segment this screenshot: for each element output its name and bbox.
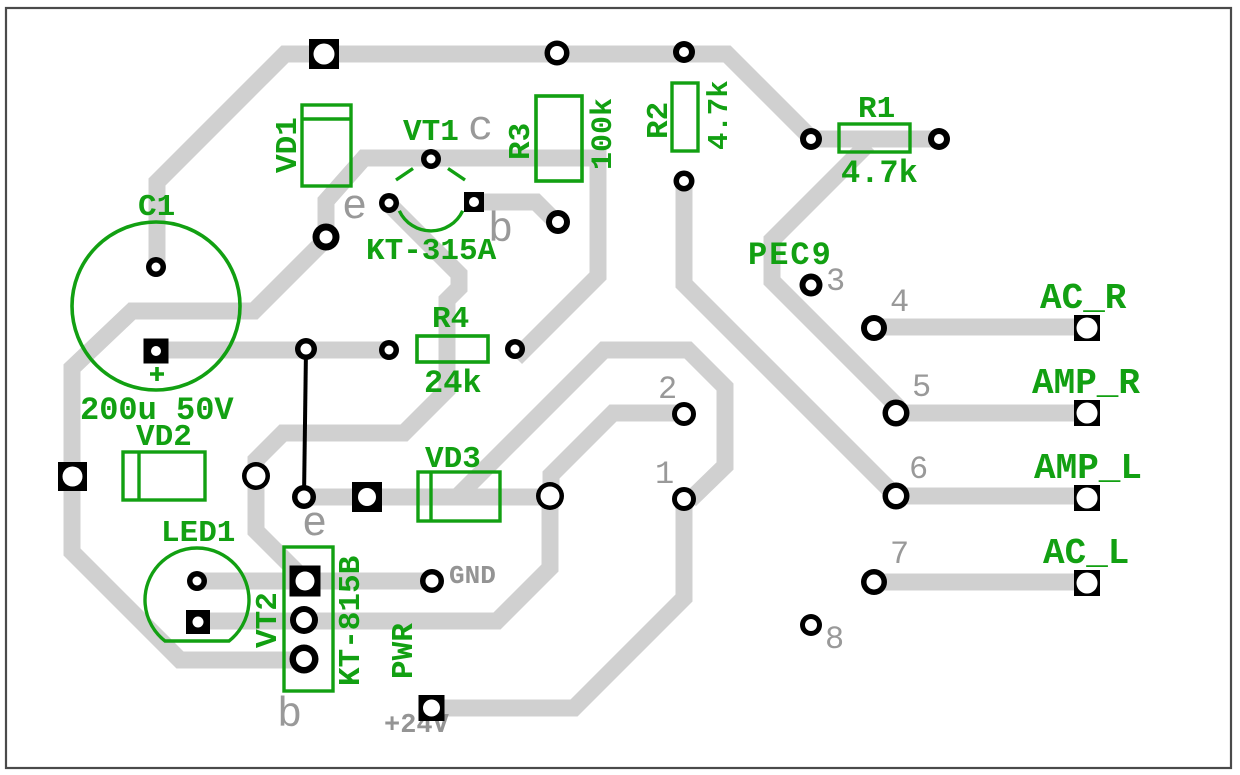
svg-text:AC_R: AC_R	[1040, 278, 1127, 319]
svg-text:1: 1	[655, 456, 674, 493]
pad right of VD3	[536, 482, 564, 510]
pad jumper top	[295, 338, 317, 360]
pad AC_L square	[1074, 570, 1100, 596]
pad VT1 emitter	[379, 193, 399, 213]
wire left net: VT2 pin3 left, up through left square pad to pad below VD1	[72, 240, 325, 660]
pad R2 bottom	[674, 171, 695, 192]
pad +24V square	[419, 695, 445, 721]
pad R2 top	[673, 41, 695, 63]
pad VT2 pin3	[290, 645, 319, 674]
pad pin 7	[861, 569, 887, 595]
wire emitter horizontal under VD3	[304, 489, 551, 506]
pad VT2 pin2	[290, 606, 318, 634]
svg-text:C1: C1	[138, 190, 175, 225]
svg-text:4: 4	[890, 284, 909, 321]
pad AC_R square	[1074, 315, 1100, 341]
resistor R2 outline	[672, 83, 698, 151]
svg-text:c: c	[468, 104, 493, 152]
wire pin 2 to pad right of VD3	[551, 413, 684, 488]
svg-text:VT2: VT2	[251, 592, 286, 648]
pad pin 6	[883, 483, 910, 510]
wire R2 bottom pad to pin 6 and AMP_L pad	[684, 181, 1087, 496]
svg-text:VD3: VD3	[425, 442, 481, 477]
svg-text:AMP_L: AMP_L	[1034, 448, 1142, 489]
resistor R4 outline	[417, 336, 488, 362]
wire LED1 bottom pin through VT2 pad2 right and up to pad right of VD3	[198, 500, 550, 621]
pad square left of VD3	[352, 482, 382, 512]
wire pin 7 to AC_L pad	[874, 574, 1087, 591]
svg-text:8: 8	[825, 621, 844, 658]
svg-text:e: e	[342, 183, 367, 231]
pad pin 4	[861, 315, 887, 341]
wire black jumper between pads	[304, 349, 306, 497]
pad LED1 bottom square	[186, 610, 210, 634]
svg-text:6: 6	[909, 451, 928, 488]
svg-text:3: 3	[826, 263, 845, 300]
diode VD3 outline	[418, 472, 500, 521]
svg-text:b: b	[277, 691, 302, 739]
wire under R1 from pad to pad	[811, 131, 939, 148]
svg-text:5: 5	[912, 369, 931, 406]
pad C1 top	[146, 257, 166, 277]
svg-text:KT-315A: KT-315A	[366, 234, 497, 269]
pad pin 1	[672, 487, 696, 511]
pad R1 right	[928, 128, 950, 150]
pad GND	[420, 569, 444, 593]
pad VT1 collector	[421, 149, 441, 169]
pad AMP_L square	[1074, 485, 1100, 511]
svg-text:AC_L: AC_L	[1043, 533, 1129, 574]
svg-text:LED1: LED1	[161, 516, 235, 551]
transistor VT2 outline	[284, 547, 333, 691]
pad R3 top	[545, 41, 570, 66]
LED1 outline D-shape	[145, 548, 249, 641]
pad R4 right	[505, 339, 525, 359]
transistor VT1 outline dashed circle	[396, 169, 465, 231]
svg-text:GND: GND	[449, 561, 496, 591]
pad C1 bottom square	[144, 339, 169, 364]
svg-text:PWR: PWR	[387, 623, 422, 679]
pad below VD1	[313, 224, 340, 251]
svg-text:2: 2	[658, 371, 677, 408]
pad right of VT1 base	[546, 210, 570, 234]
svg-text:R3: R3	[504, 123, 539, 160]
svg-text:100k: 100k	[587, 98, 621, 170]
pad pin 2	[672, 402, 696, 426]
pad AMP_R square	[1074, 400, 1100, 426]
svg-text:4.7k: 4.7k	[841, 155, 918, 192]
wire +24V pad to pin 1	[431, 499, 684, 708]
pad LED1 top	[187, 571, 207, 591]
pad R4 left	[379, 340, 399, 360]
pad above LED1	[242, 462, 270, 490]
capacitor C1 plus mark	[150, 367, 164, 381]
resistor R1 outline	[839, 124, 910, 152]
svg-text:24k: 24k	[424, 365, 482, 402]
pad VT1 base square	[464, 192, 484, 212]
svg-text:AMP_R: AMP_R	[1032, 363, 1140, 404]
pad R1 left	[800, 128, 822, 150]
resistor R3 outline	[536, 96, 582, 181]
svg-text:b: b	[488, 206, 513, 254]
svg-text:VT1: VT1	[403, 115, 459, 150]
wire pin 4 to AC_R pad	[874, 319, 1087, 336]
wire VT1 collector net: pad below VD1 up and right under R3 down to R4 right pad	[326, 158, 598, 358]
svg-text:KT-815B: KT-815B	[334, 556, 369, 686]
wire hexagon: VD3 area up to horizontal and down to pin 1	[458, 350, 725, 500]
svg-text:R2: R2	[642, 102, 677, 139]
pad pin 5	[883, 400, 910, 427]
pad pin 8	[800, 614, 822, 636]
pad square left edge	[58, 462, 87, 491]
wire C1 bottom pad right to R4 left pad	[157, 342, 389, 359]
wire VT1 base pad to pad right of it	[476, 202, 558, 224]
wire LED1 top pin to VT2 pad1 and GND pad	[197, 573, 430, 590]
wire R1 branch down to pin 5 and AMP_R pad	[772, 144, 1087, 413]
diode VD2 outline	[123, 452, 205, 500]
diode VD1 outline	[302, 105, 351, 186]
pad jumper bottom (VT2 emitter node)	[292, 485, 316, 509]
svg-text:R1: R1	[858, 92, 895, 127]
wire top bus: C1 top pin up, across to R1 left pad	[157, 54, 811, 268]
wire VT1 emitter down through R4 body, left and down to VT2 pad1	[256, 204, 459, 580]
pad VT2 pin1 square	[290, 566, 321, 597]
pad pin 3	[800, 274, 823, 297]
svg-text:7: 7	[890, 536, 909, 573]
svg-text:R4: R4	[432, 302, 469, 337]
svg-text:4.7k: 4.7k	[703, 80, 736, 150]
capacitor C1 outline	[72, 222, 240, 390]
svg-text:VD2: VD2	[136, 420, 192, 455]
pad square top bus	[309, 39, 339, 69]
svg-text:PEC9: PEC9	[748, 237, 833, 274]
svg-text:VD1: VD1	[271, 117, 306, 173]
